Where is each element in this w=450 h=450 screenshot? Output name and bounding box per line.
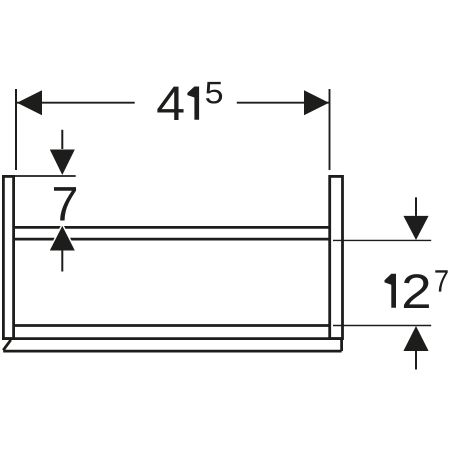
- dimension 12.7 top arrow tail: [415, 197, 417, 216]
- dimension 12.7 top arrowhead: [403, 216, 428, 240]
- plinth right edge: [340, 339, 343, 351]
- dimension label 7: [54, 187, 76, 220]
- plinth chamfered left edge: [3, 340, 11, 350]
- plinth bottom line: [3, 350, 341, 353]
- dimension 7 top arrow tail: [61, 130, 63, 149]
- dimension 12.7 top extension line: [333, 239, 431, 241]
- dimension 7 bottom arrow tail: [61, 251, 63, 272]
- dimension 12.7 bottom arrow tail: [415, 351, 417, 370]
- right side panel: [330, 176, 343, 338]
- dimension 41.5 line right segment: [237, 102, 329, 104]
- dimension label 41.5: [157, 82, 222, 120]
- bottom shelf top line: [15, 324, 330, 327]
- dimension 41.5 right extension line: [329, 89, 331, 170]
- top rail lower line: [15, 238, 330, 241]
- dimension 12.7 bottom arrowhead: [403, 326, 428, 351]
- dimension 12.7 bottom extension line: [333, 325, 431, 327]
- dimension 41.5 left arrowhead: [17, 90, 42, 115]
- dimension 7 top extension line: [15, 175, 76, 177]
- dimension 7 bottom arrowhead: [50, 226, 75, 251]
- dimension 41.5 left extension line: [15, 89, 17, 170]
- left side panel: [3, 176, 13, 338]
- dimension 7 top arrowhead: [50, 150, 75, 176]
- top rail upper line: [15, 226, 330, 229]
- dimension 41.5 right arrowhead: [304, 90, 329, 115]
- dimension label 12.7: [385, 270, 448, 308]
- cabinet bottom line: [2, 337, 343, 340]
- dimension 41.5 line left segment: [17, 102, 135, 104]
